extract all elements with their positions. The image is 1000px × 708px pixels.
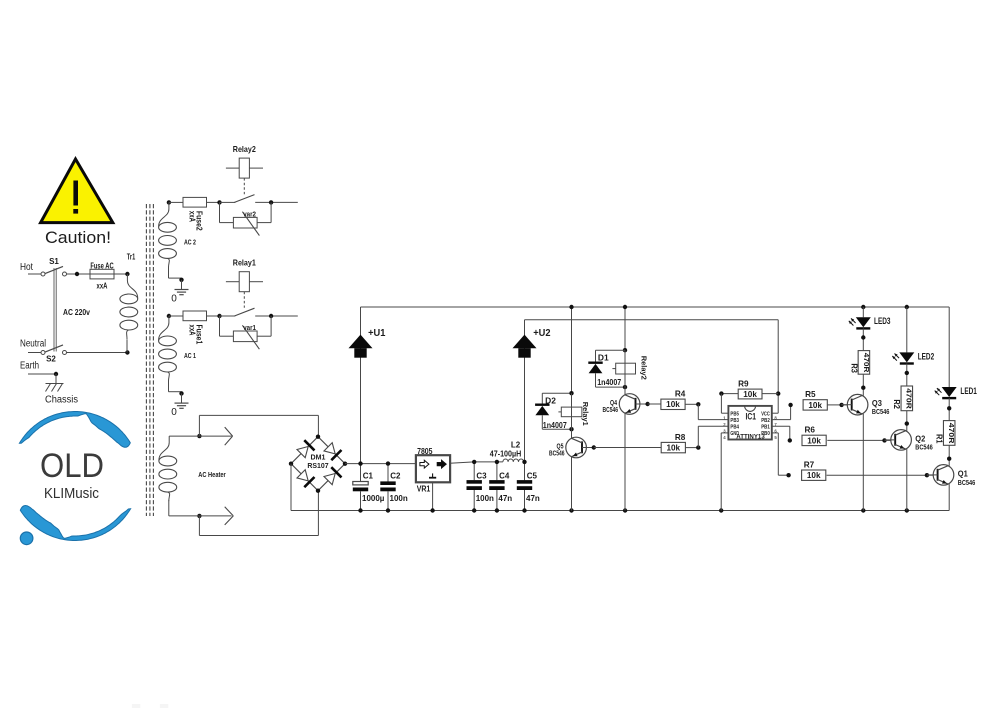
svg-text:10k: 10k	[743, 390, 757, 399]
svg-text:Relay2: Relay2	[233, 145, 256, 154]
svg-text:GND: GND	[730, 431, 739, 437]
svg-text:10k: 10k	[666, 444, 680, 453]
svg-text:VCC: VCC	[761, 411, 770, 417]
svg-text:10k: 10k	[807, 436, 821, 445]
svg-text:xxA: xxA	[187, 325, 196, 336]
svg-text:Relay2: Relay2	[639, 356, 648, 380]
svg-text:100n: 100n	[390, 494, 408, 503]
svg-text:KLIMusic: KLIMusic	[44, 486, 99, 502]
svg-text:0: 0	[171, 293, 177, 304]
svg-text:Hot: Hot	[20, 262, 33, 273]
svg-text:PB5: PB5	[730, 411, 739, 417]
svg-text:R3: R3	[849, 363, 858, 373]
svg-text:BC546: BC546	[603, 405, 619, 414]
svg-text:L2: L2	[511, 440, 521, 449]
svg-text:AC 220v: AC 220v	[63, 308, 90, 317]
svg-text:BC546: BC546	[872, 407, 890, 416]
svg-text:AC 2: AC 2	[184, 237, 196, 246]
svg-text:R7: R7	[804, 460, 815, 469]
svg-text:47n: 47n	[526, 494, 540, 503]
svg-text:7805: 7805	[417, 447, 433, 456]
svg-text:470R: 470R	[862, 353, 871, 373]
svg-text:Tr1: Tr1	[127, 253, 136, 262]
svg-text:LED2: LED2	[918, 351, 935, 361]
svg-text:PB3: PB3	[730, 418, 739, 424]
svg-text:C2: C2	[390, 472, 401, 481]
svg-text:Neutral: Neutral	[20, 339, 46, 350]
svg-text:470R: 470R	[905, 388, 914, 409]
svg-text:10k: 10k	[808, 401, 822, 410]
svg-text:Relay1: Relay1	[581, 402, 590, 427]
svg-text:100n: 100n	[476, 494, 494, 503]
svg-text:10k: 10k	[666, 400, 680, 409]
svg-text:BC546: BC546	[915, 443, 933, 452]
svg-text:LED3: LED3	[874, 316, 891, 326]
svg-text:+U2: +U2	[533, 327, 550, 339]
svg-text:Caution!: Caution!	[45, 228, 111, 247]
svg-text:C5: C5	[527, 472, 538, 481]
svg-text:R2: R2	[892, 399, 901, 409]
svg-text:Chassis: Chassis	[45, 395, 78, 406]
svg-text:var1: var1	[243, 323, 256, 332]
svg-text:OLD: OLD	[40, 447, 104, 485]
svg-text:S2: S2	[46, 355, 56, 364]
svg-text:LED1: LED1	[960, 386, 977, 396]
svg-text:R8: R8	[675, 433, 686, 442]
svg-text:PB0: PB0	[761, 431, 770, 437]
svg-text:PB1: PB1	[761, 424, 770, 430]
svg-text:Relay1: Relay1	[233, 259, 256, 268]
svg-text:IC1: IC1	[746, 412, 757, 422]
svg-text:47-100µH: 47-100µH	[490, 449, 522, 458]
svg-text:C4: C4	[499, 472, 510, 481]
svg-text:S1: S1	[49, 257, 59, 266]
svg-text:+U1: +U1	[368, 327, 385, 339]
svg-text:C3: C3	[476, 472, 487, 481]
svg-text:R4: R4	[675, 390, 686, 399]
svg-text:1n4007: 1n4007	[597, 378, 621, 387]
svg-text:0: 0	[171, 407, 177, 418]
svg-text:R9: R9	[738, 380, 749, 389]
svg-text:AC Heater: AC Heater	[198, 470, 226, 479]
svg-text:1000µ: 1000µ	[362, 494, 385, 503]
svg-text:RS107: RS107	[307, 461, 328, 470]
svg-text:470R: 470R	[947, 423, 956, 444]
svg-text:var2: var2	[243, 210, 256, 219]
svg-text:R5: R5	[805, 390, 816, 399]
svg-text:BC546: BC546	[549, 448, 565, 457]
svg-text:xxA: xxA	[187, 211, 196, 222]
svg-text:BC546: BC546	[958, 478, 976, 487]
svg-text:xxA: xxA	[97, 282, 108, 291]
svg-text:1n4007: 1n4007	[543, 421, 567, 430]
svg-text:C1: C1	[363, 472, 374, 481]
svg-text:Earth: Earth	[20, 361, 39, 372]
svg-text:PB2: PB2	[761, 418, 770, 424]
svg-text:VR1: VR1	[417, 485, 431, 494]
svg-text:AC 1: AC 1	[184, 351, 196, 360]
svg-text:PB4: PB4	[730, 424, 739, 430]
svg-text:Fuse AC: Fuse AC	[90, 261, 113, 270]
svg-text:R6: R6	[804, 426, 815, 435]
svg-text:47n: 47n	[498, 494, 512, 503]
svg-text:D2: D2	[545, 397, 556, 406]
svg-text:10k: 10k	[807, 471, 821, 480]
svg-text:R1: R1	[935, 434, 944, 444]
svg-text:D1: D1	[598, 353, 609, 362]
